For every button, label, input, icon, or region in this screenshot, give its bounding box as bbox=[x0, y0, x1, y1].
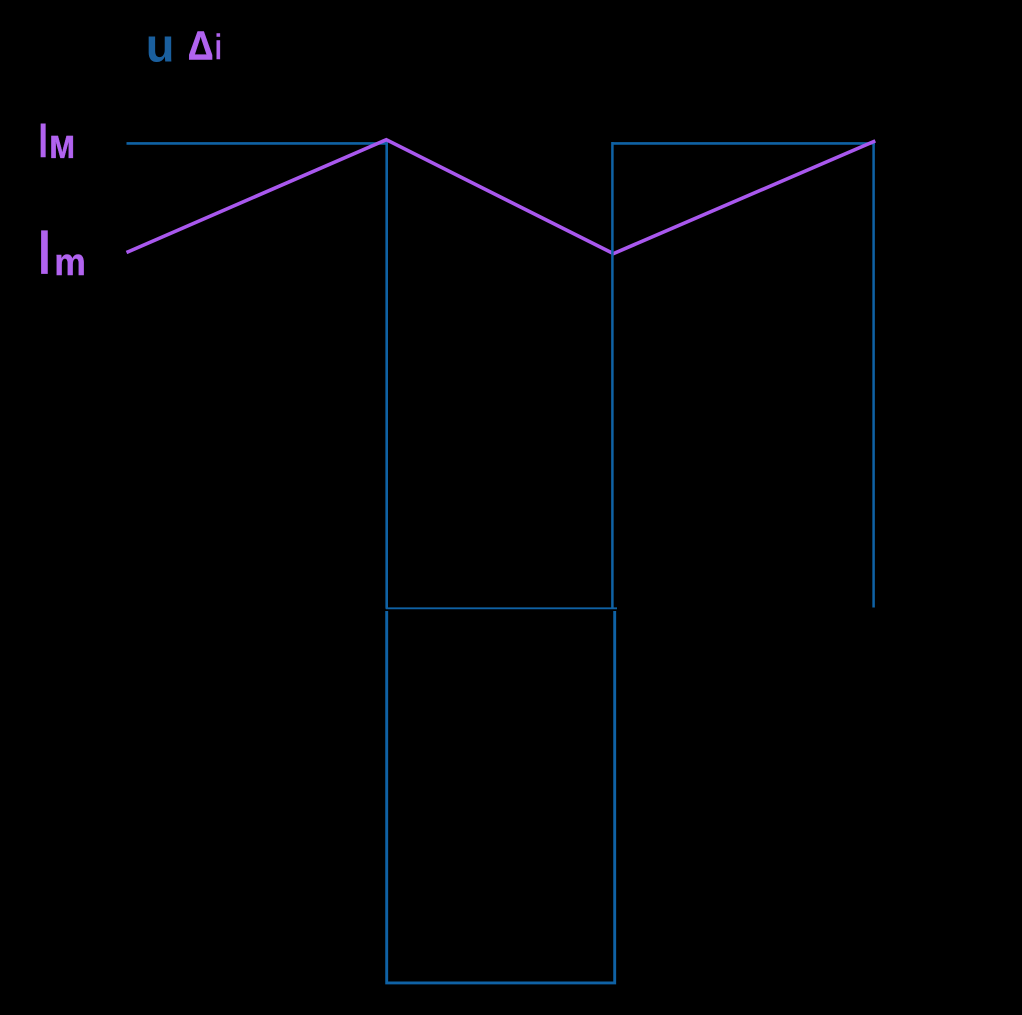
voltage top segment 2 (u high level, second pulse) bbox=[612, 142, 875, 145]
svg-text:u: u bbox=[146, 18, 175, 71]
svg-text:м: м bbox=[49, 120, 76, 167]
voltage rising edge at t1 (vertical line V2, drawn over the wave) bbox=[611, 142, 614, 608]
svg-text:I: I bbox=[36, 218, 53, 288]
inductor current ripple waveform (triangle wave) bbox=[127, 140, 876, 254]
svg-text:Δ: Δ bbox=[188, 22, 214, 68]
voltage falling edge at T (vertical line V3) bbox=[872, 141, 875, 608]
svg-text:m: m bbox=[54, 242, 86, 284]
svg-text:i: i bbox=[214, 27, 222, 67]
negative voltage pulse (open-top rectangle) bbox=[387, 611, 615, 983]
voltage falling edge at t1 (vertical line V1) bbox=[385, 141, 388, 609]
time axis segment bbox=[386, 607, 617, 609]
svg-text:I: I bbox=[37, 115, 50, 168]
voltage top segment 1 (u high level, first pulse) bbox=[127, 142, 389, 145]
